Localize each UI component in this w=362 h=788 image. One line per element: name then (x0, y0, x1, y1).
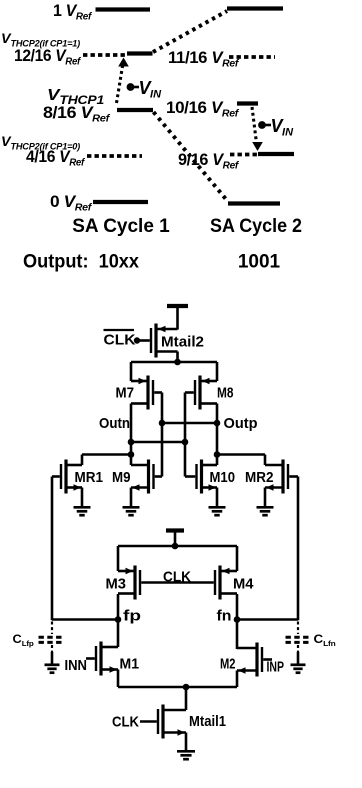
wire: M4 drain down to fn (236, 594, 239, 649)
wire: dotted diagonal 12/16 cycle1 to top of cycle2 (153, 11, 227, 52)
wire: VDD to Mtail2 source (176, 306, 179, 330)
transistor M7 (PMOS cross-coupled) (146, 376, 149, 410)
svg-text:M8: M8 (217, 385, 234, 402)
wire: fp to left load cap (52, 618, 118, 621)
level line: 9/16 Vref dashed part (SA cycle 2) (230, 153, 257, 157)
wire: M1 source down to tail rail (117, 670, 120, 688)
svg-text:CLfp: CLfp (13, 632, 35, 648)
wire: Mtail1 source to ground (185, 733, 188, 751)
svg-text:M2: M2 (220, 656, 236, 673)
junction: Outp - cross wire (214, 420, 221, 427)
svg-text:12/16 VRef: 12/16 VRef (14, 46, 82, 68)
power VDD symbol (input stage) (166, 528, 184, 532)
svg-text:fn: fn (217, 608, 232, 625)
svg-text:Mtail1: Mtail1 (189, 713, 226, 730)
wire: C_Lfn to ground (297, 652, 300, 664)
svg-text:MR1: MR1 (75, 469, 104, 486)
wire: cross-couple Outp to left gates (162, 422, 217, 425)
power VDD symbol (latch stage) (167, 304, 188, 308)
wire: tail rail (118, 686, 237, 689)
svg-text:M3: M3 (106, 576, 127, 593)
node fp junction (115, 616, 122, 623)
svg-text:Outn: Outn (99, 415, 130, 432)
svg-text:CLK: CLK (104, 332, 136, 349)
svg-text:0 VRef: 0 VRef (50, 192, 93, 214)
marker: VIN level dot cycle 2 (259, 124, 271, 127)
wire: CLK line between M3 and M4 gates (141, 581, 214, 584)
arrowhead down at 9/16 line (252, 142, 263, 151)
wire: dotted diagonal 8/16 cycle1 to bottom of cycle2 (154, 112, 228, 201)
wire: MR1 gate long wire down left side to fp (51, 477, 54, 621)
wire: Outp drains horizontal (M10-MR2) (217, 453, 265, 456)
node Outn vertical wire (130, 404, 133, 466)
svg-text:1 VRef: 1 VRef (53, 1, 93, 23)
wire: rail down to M3 source (117, 546, 120, 571)
svg-text:SA Cycle 2: SA Cycle 2 (210, 216, 302, 237)
wire: M7/M9 gate vertical (to Outp) (161, 393, 164, 477)
wire: MR1 drain riser (81, 455, 84, 466)
wire: M8/M10 gate vertical (to Outn) (184, 393, 187, 477)
transistor Mtail2 (PMOS tail) (154, 324, 157, 358)
transistor MR2 (NMOS reset, gate to fn) (281, 460, 284, 494)
transistor M2 (NMOS input, gate INP) (255, 643, 258, 677)
svg-text:CLfn: CLfn (314, 632, 337, 648)
svg-text:CLK: CLK (163, 569, 191, 586)
wire: M9 source to ground (130, 488, 133, 507)
ground (C_Lfp) (45, 663, 60, 666)
svg-text:Outp: Outp (224, 415, 258, 432)
ground (Mtail1 source) (177, 750, 195, 753)
level line: bottom of SA cycle 2 (8/16) (228, 201, 280, 205)
svg-text:SA Cycle 1: SA Cycle 1 (72, 216, 170, 237)
level line: 1 Vref (SA cycle 1) (96, 7, 151, 11)
level line: 12/16 Vref dashed (SA cycle 1) (83, 53, 126, 57)
svg-text:VIN: VIN (271, 116, 295, 139)
level line: 4/16 Vref dashed (SA cycle 1) (87, 154, 142, 158)
wire: C_Lfp to ground (51, 652, 54, 664)
svg-text:CLK: CLK (112, 714, 139, 731)
transistor M4 (PMOS precharge) (218, 566, 221, 600)
svg-text:M1: M1 (120, 656, 140, 673)
wire: Mtail2 drain to latch source rail (176, 352, 179, 363)
ground (C_Lfn) (291, 663, 306, 666)
transistor M9 (NMOS cross-coupled) (147, 460, 150, 494)
level line: 9/16 Vref solid part (SA cycle 2) (258, 152, 294, 156)
ground (M10 source) (209, 506, 226, 509)
junction: VDD - rail (172, 543, 179, 550)
wire: MR2 drain riser (264, 455, 267, 466)
junction: left gates - cross wire (159, 420, 166, 427)
ground (M9 source) (123, 506, 140, 509)
transistor MR1 (NMOS reset, gate to fp) (64, 460, 67, 494)
wire: MR2 source to ground (264, 488, 267, 507)
svg-text:M9: M9 (112, 469, 131, 486)
level line: 10/16 Vref (SA cycle 2) (237, 101, 258, 105)
wire: MR1 source to ground (81, 488, 84, 507)
junction: Outp - drain bus (214, 451, 221, 458)
transistor M3 (PMOS precharge) (133, 566, 136, 600)
svg-text:MR2: MR2 (245, 469, 274, 486)
wire: rail down to M8 source (216, 362, 219, 381)
svg-text:Output: 10xx: Output: 10xx (23, 252, 139, 273)
ground (MR1 source) (74, 506, 91, 509)
wire: rail down to M7 source (130, 362, 133, 381)
wire: M10 source to ground (216, 488, 219, 507)
marker: VIN level dot cycle 1 (128, 86, 139, 89)
level line: 11/16 Vref dashed (SA cycle 2) (229, 55, 275, 59)
transistor M8 (PMOS cross-coupled) (198, 376, 201, 410)
svg-text:M4: M4 (233, 576, 254, 593)
capacitor C_Lfp (dashed parasitic load) (51, 622, 53, 635)
level line: top of SA cycle 2 (12/16) (227, 6, 283, 10)
wire: cross-couple Outn to right gates (131, 441, 185, 444)
node: CLKbar input dot (134, 337, 140, 343)
svg-text:1001: 1001 (238, 252, 281, 273)
svg-text:M10: M10 (210, 469, 236, 486)
wire: MR2 gate long wire down right side to fn (297, 477, 300, 621)
node fn junction (234, 616, 241, 623)
svg-text:VIN: VIN (139, 78, 163, 101)
arrow: VIN search arrow cycle 2 (dotted shaft) (252, 107, 257, 143)
svg-text:fp: fp (123, 608, 141, 625)
svg-text:INP: INP (267, 659, 285, 676)
wire: VDD to precharge rail (174, 531, 177, 547)
wire: M2 source down to tail rail (236, 671, 239, 688)
junction: right gates - cross wire (182, 439, 189, 446)
level line: V_THCP2 threshold solid segment (SA cycle 1) (127, 51, 153, 55)
svg-text:M7: M7 (116, 385, 135, 402)
wire: M3 drain down to fp (117, 594, 120, 647)
ground (MR2 source) (257, 506, 274, 509)
junction: rail - Mtail2 drain (174, 359, 181, 366)
junction: Outn - cross wire (128, 439, 135, 446)
junction: Outn - drain bus (128, 451, 135, 458)
capacitor C_Lfn (dashed parasitic load) (297, 622, 299, 635)
wire: tail rail to Mtail1 drain (185, 687, 188, 710)
svg-text:Mtail2: Mtail2 (161, 334, 204, 351)
svg-text:10/16 VRef: 10/16 VRef (166, 98, 240, 120)
transistor Mtail1 (NMOS tail, gate CLK) (161, 705, 164, 739)
wire: fn to right load cap (237, 618, 298, 621)
wire: latch source rail (131, 361, 217, 364)
wire: Outn drains horizontal (MR1-M9) (82, 453, 131, 456)
svg-text:INN: INN (65, 657, 88, 674)
arrow: VIN search arrow cycle 1 (dotted shaft) (117, 65, 123, 103)
level line: 8/16 Vref (SA cycle 1) (117, 108, 153, 112)
transistor M1 (NMOS input, gate INN) (99, 642, 102, 676)
level line: 0 Vref (SA cycle 1) (93, 200, 148, 204)
transistor M10 (NMOS cross-coupled) (200, 460, 203, 494)
wire: precharge source rail (118, 545, 237, 548)
arrowhead up at 12/16 line (118, 58, 129, 67)
junction: tail rail - Mtail1 drain (183, 684, 190, 691)
node Outp vertical wire (216, 404, 219, 466)
wire: rail down to M4 source (236, 546, 239, 571)
